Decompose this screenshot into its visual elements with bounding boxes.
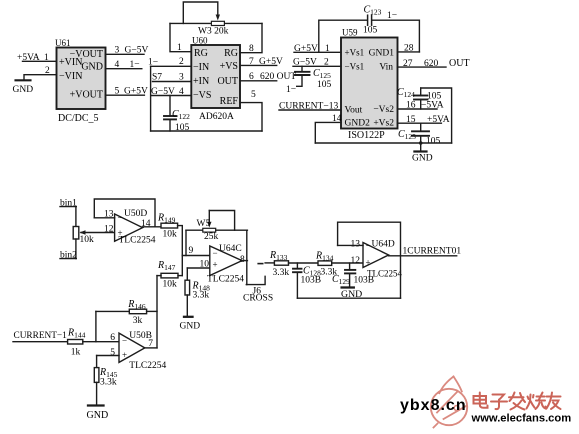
resistor R148 3.3k bbox=[185, 268, 210, 317]
svg-text:GND2: GND2 bbox=[345, 119, 371, 129]
svg-text:13: 13 bbox=[351, 240, 361, 250]
bottom reference wire under U60 bbox=[151, 130, 262, 132]
svg-text:5: 5 bbox=[251, 90, 256, 100]
svg-text:+5VA: +5VA bbox=[427, 115, 450, 125]
svg-text:TLC2254: TLC2254 bbox=[119, 236, 156, 246]
node bin2 bbox=[60, 251, 77, 261]
svg-text:2: 2 bbox=[324, 58, 329, 68]
svg-text:1−: 1− bbox=[387, 11, 397, 21]
U61 pin 4 wire, net 1- bbox=[106, 60, 142, 70]
svg-text:620: 620 bbox=[424, 59, 439, 69]
svg-text:12: 12 bbox=[351, 256, 361, 266]
svg-text:R146: R146 bbox=[127, 299, 146, 311]
U64C output wire bbox=[242, 260, 247, 262]
svg-text:16: 16 bbox=[406, 101, 416, 111]
svg-text:R149: R149 bbox=[157, 213, 176, 225]
svg-text:10k: 10k bbox=[163, 230, 178, 240]
capacitor C128 103B bbox=[293, 263, 321, 298]
svg-text:−Vs1: −Vs1 bbox=[345, 62, 365, 72]
svg-text:3: 3 bbox=[115, 46, 120, 56]
capacitor C125 105 on +Vs2 bbox=[398, 123, 441, 146]
svg-text:C123: C123 bbox=[364, 5, 382, 17]
svg-text:105: 105 bbox=[363, 26, 378, 36]
U50B output wire up to R146/R147 bbox=[145, 347, 157, 349]
svg-text:3.3k: 3.3k bbox=[100, 378, 117, 388]
op-amp U64D TLC2254 bbox=[351, 240, 403, 279]
bottom rail wire under U59 bbox=[315, 141, 451, 145]
watermark glyph fa bbox=[509, 393, 525, 410]
svg-text:W3 20k: W3 20k bbox=[198, 27, 229, 37]
resistor R149 10k bbox=[157, 213, 178, 240]
node bin1 bbox=[60, 199, 77, 209]
ground under U61 pin2 bbox=[13, 80, 34, 95]
svg-text:15: 15 bbox=[406, 115, 416, 125]
ground under R148 bbox=[180, 317, 201, 332]
svg-text:1k: 1k bbox=[71, 348, 81, 358]
pot wiper arrow to U50D pin 12 bbox=[80, 230, 115, 234]
svg-text:R133: R133 bbox=[269, 250, 288, 262]
svg-text:+5VA: +5VA bbox=[17, 53, 40, 63]
svg-text:U50D: U50D bbox=[124, 209, 147, 219]
svg-text:−5VA: −5VA bbox=[421, 101, 444, 111]
svg-text:6: 6 bbox=[110, 333, 115, 343]
svg-text:−: − bbox=[366, 241, 371, 251]
U59 pin 1 wire, net G+5V bbox=[294, 44, 341, 54]
dcdc U61 body bbox=[55, 38, 106, 124]
svg-text:10k: 10k bbox=[163, 280, 178, 290]
svg-text:−: − bbox=[213, 248, 218, 258]
svg-text:U64C: U64C bbox=[219, 244, 242, 254]
ground under U59 bbox=[412, 143, 433, 164]
U60 pin 5 REF wire bbox=[240, 90, 262, 131]
U59 pin 27 Vin wire, net 620 OUT bbox=[398, 58, 470, 69]
wire R144 to U50B pin 6 bbox=[83, 341, 119, 343]
U60 pin 6 wire, net 620 OUT bbox=[240, 72, 296, 82]
watermark glyph dian bbox=[474, 393, 488, 408]
bottom wire C128 to feedback bbox=[297, 297, 400, 299]
svg-text:C129: C129 bbox=[332, 274, 350, 286]
svg-text:GND1: GND1 bbox=[369, 49, 395, 59]
op-amp U50B TLC2254 bbox=[110, 331, 166, 371]
capacitor C125 105 on -Vs1, net 1- bbox=[286, 66, 332, 95]
wire R147 down to U50B output bbox=[156, 276, 158, 348]
svg-text:5: 5 bbox=[110, 348, 115, 358]
wire pot to bin2 bbox=[75, 239, 77, 259]
svg-text:GND: GND bbox=[81, 62, 103, 73]
svg-text:12: 12 bbox=[104, 225, 114, 235]
svg-text:GND: GND bbox=[412, 154, 433, 164]
svg-text:10k: 10k bbox=[80, 235, 95, 245]
U60 pin 1 wire bbox=[170, 23, 191, 53]
wire R149 to summing node bbox=[178, 226, 183, 256]
svg-text:+IN: +IN bbox=[193, 76, 209, 87]
svg-text:U61: U61 bbox=[55, 38, 71, 48]
svg-text:GND: GND bbox=[13, 85, 34, 95]
U60 pin 4 wire, net G-5V bbox=[151, 87, 191, 97]
U59 pin 13 Vout wire, net CURRENT-1 bbox=[279, 102, 341, 112]
svg-text:−VIN: −VIN bbox=[59, 71, 82, 82]
svg-text:C122: C122 bbox=[172, 109, 190, 121]
U60 pin 3 wire, net S7 bbox=[152, 73, 191, 83]
svg-text:3.3k: 3.3k bbox=[273, 268, 290, 278]
wire bin1 to pot bbox=[75, 207, 77, 227]
svg-text:1−: 1− bbox=[148, 58, 158, 68]
U50D pin 13 wire bbox=[94, 217, 114, 219]
potentiometer 10k vertical bbox=[73, 227, 94, 246]
svg-text:103B: 103B bbox=[301, 276, 322, 286]
U61 pin 1 wire, net +5VA bbox=[17, 53, 57, 63]
svg-text:G−5V: G−5V bbox=[293, 58, 317, 68]
svg-text:G+5V: G+5V bbox=[294, 44, 318, 54]
svg-text:TLC2254: TLC2254 bbox=[207, 275, 244, 285]
capacitor C122 105 bbox=[164, 96, 190, 134]
svg-text:1CURRENT01: 1CURRENT01 bbox=[403, 247, 462, 257]
ground under R145 bbox=[87, 406, 109, 422]
svg-text:7: 7 bbox=[249, 57, 254, 67]
svg-text:OUT: OUT bbox=[449, 58, 470, 69]
svg-text:U59: U59 bbox=[342, 28, 358, 38]
svg-text:−VS: −VS bbox=[193, 90, 211, 101]
U64D output wire, net 1CURRENT01 bbox=[389, 247, 462, 257]
resistor R133 3.3k bbox=[265, 250, 289, 278]
svg-text:1: 1 bbox=[177, 43, 182, 53]
svg-text:−IN: −IN bbox=[193, 62, 209, 73]
svg-text:+: + bbox=[366, 258, 371, 268]
U61 pin 3 wire, net G-5V bbox=[106, 46, 149, 56]
svg-text:+Vs1: +Vs1 bbox=[345, 48, 365, 58]
svg-text:OUT: OUT bbox=[217, 76, 238, 87]
jumper J6 CROSS bbox=[243, 264, 273, 304]
resistor R147 10k bbox=[157, 260, 182, 290]
svg-text:1: 1 bbox=[325, 44, 330, 54]
U50D output wire bbox=[143, 226, 161, 228]
U60 pin 7 wire, net G+5V bbox=[240, 57, 283, 67]
svg-text:−: − bbox=[122, 336, 127, 346]
svg-text:ISO122P: ISO122P bbox=[348, 130, 385, 141]
U50B pin 5 wire bbox=[97, 355, 119, 357]
U61 pin 5 wire, net G+5V bbox=[106, 87, 148, 97]
svg-text:C125: C125 bbox=[313, 68, 331, 80]
potentiometer W3 20k bbox=[170, 2, 262, 37]
ground under C129 bbox=[341, 288, 362, 301]
wire R133 to R134 bbox=[289, 262, 319, 264]
svg-text:CROSS: CROSS bbox=[243, 294, 273, 304]
resistor R146 3k bbox=[96, 299, 157, 326]
U50D feedback loop wire bbox=[94, 199, 155, 227]
svg-text:ybx8.cn: ybx8.cn bbox=[400, 397, 467, 414]
svg-text:DC/DC_5: DC/DC_5 bbox=[58, 113, 99, 124]
svg-text:5: 5 bbox=[115, 87, 120, 97]
U60 pin 2 wire, net 1- bbox=[148, 57, 191, 68]
svg-text:3.3k: 3.3k bbox=[193, 291, 210, 301]
wire summing node down to R147 bbox=[181, 256, 183, 276]
svg-text:CURRENT−13: CURRENT−13 bbox=[279, 102, 338, 112]
svg-text:AD620A: AD620A bbox=[199, 112, 234, 122]
U64D feedback loop wire bbox=[338, 222, 401, 298]
wire W5 left leg to pin 9 node bbox=[185, 230, 187, 255]
svg-text:C124: C124 bbox=[397, 87, 415, 99]
svg-text:105: 105 bbox=[317, 80, 332, 90]
svg-text:RG: RG bbox=[224, 48, 238, 59]
svg-text:S7: S7 bbox=[152, 73, 162, 83]
resistor R134 3.3k bbox=[315, 251, 337, 278]
net 1- left vertical wire bbox=[150, 66, 152, 131]
capacitor C129 103B bbox=[332, 263, 374, 288]
svg-text:GND: GND bbox=[87, 410, 109, 421]
svg-text:Vin: Vin bbox=[379, 63, 393, 73]
svg-text:G−5V: G−5V bbox=[125, 46, 149, 56]
svg-text:8: 8 bbox=[249, 44, 254, 54]
svg-text:TLC2254: TLC2254 bbox=[367, 269, 402, 279]
svg-text:1−: 1− bbox=[130, 60, 140, 70]
svg-text:4: 4 bbox=[179, 87, 184, 97]
svg-text:14: 14 bbox=[332, 114, 342, 124]
svg-text:www.elecfans.com: www.elecfans.com bbox=[471, 413, 572, 425]
svg-text:3k: 3k bbox=[133, 316, 143, 326]
watermark glyph zi bbox=[491, 395, 507, 410]
svg-text:27: 27 bbox=[403, 59, 413, 69]
svg-text:28: 28 bbox=[404, 44, 414, 54]
svg-text:105: 105 bbox=[426, 137, 441, 147]
capacitor C124 105 bbox=[397, 87, 442, 109]
svg-text:+Vs2: +Vs2 bbox=[373, 119, 394, 129]
U64D pin 13 wire bbox=[338, 244, 363, 246]
watermark glyph shao bbox=[527, 393, 546, 410]
svg-text:W5: W5 bbox=[197, 219, 211, 229]
svg-text:1: 1 bbox=[44, 53, 49, 63]
watermark text www.elecfans.com bbox=[471, 413, 572, 425]
svg-text:−VOUT: −VOUT bbox=[70, 49, 103, 60]
watermark glyph you bbox=[547, 393, 561, 410]
watermark text ybx8.cn bbox=[400, 397, 467, 414]
U64C pin 10 wire bbox=[187, 267, 210, 269]
svg-text:+: + bbox=[213, 260, 218, 270]
svg-text:9: 9 bbox=[189, 246, 194, 256]
svg-text:2: 2 bbox=[45, 66, 50, 76]
svg-text:R147: R147 bbox=[157, 260, 176, 272]
U59 pin 15 +Vs2 wire, net +5VA bbox=[398, 115, 450, 125]
U64C pin 9 wire bbox=[182, 246, 210, 256]
potentiometer W5 25k bbox=[186, 211, 247, 243]
svg-text:+VS: +VS bbox=[220, 61, 238, 72]
svg-text:G+5V: G+5V bbox=[259, 57, 283, 67]
net CURRENT-1 input wire bbox=[13, 331, 68, 342]
svg-text:4: 4 bbox=[115, 60, 120, 70]
svg-text:+VOUT: +VOUT bbox=[70, 90, 103, 101]
svg-text:G+5V: G+5V bbox=[124, 87, 148, 97]
svg-text:620 OUT: 620 OUT bbox=[260, 72, 296, 82]
svg-text:R134: R134 bbox=[315, 251, 334, 263]
U60 pin 8 wire bbox=[240, 23, 262, 54]
svg-text:2: 2 bbox=[179, 57, 184, 67]
svg-text:REF: REF bbox=[220, 96, 239, 107]
resistor R145 3.3k bbox=[94, 356, 117, 406]
svg-text:U60: U60 bbox=[192, 36, 208, 46]
U61 pin 2 wire bbox=[24, 66, 57, 80]
svg-text:6: 6 bbox=[249, 72, 254, 82]
resistor R144 1k bbox=[67, 328, 86, 358]
capacitor C123 105, net 1- bbox=[319, 5, 420, 53]
svg-text:1−: 1− bbox=[286, 85, 296, 95]
svg-text:GND: GND bbox=[180, 322, 201, 332]
svg-text:105: 105 bbox=[427, 92, 442, 102]
wire W5 right leg down through output node to J6 bbox=[246, 230, 248, 284]
U59 pin 2 wire, net G-5V bbox=[293, 58, 341, 68]
svg-text:Vout: Vout bbox=[345, 106, 363, 116]
op-amp U64C TLC2254 bbox=[200, 244, 246, 285]
iso amp U59 body bbox=[341, 28, 398, 142]
svg-text:G−5V: G−5V bbox=[151, 87, 175, 97]
U59 pin 28 GND1 wire bbox=[398, 44, 420, 54]
svg-text:TLC2254: TLC2254 bbox=[129, 361, 166, 371]
wire R134 to U64D pin 12 bbox=[332, 262, 363, 264]
wire feedback node up to R146 bbox=[95, 311, 97, 341]
svg-text:CURRENT−1: CURRENT−1 bbox=[14, 331, 68, 341]
opamp U60 body bbox=[191, 36, 240, 123]
svg-text:RG: RG bbox=[194, 48, 208, 59]
op-amp U50D TLC2254 bbox=[104, 209, 156, 246]
svg-text:3: 3 bbox=[179, 73, 184, 83]
svg-text:−: − bbox=[118, 213, 123, 223]
svg-text:25k: 25k bbox=[204, 232, 219, 242]
U59 pin 14 GND2 wire bbox=[315, 114, 341, 143]
svg-text:R144: R144 bbox=[67, 328, 86, 340]
svg-text:−Vs2: −Vs2 bbox=[373, 105, 394, 115]
U59 pin 16 -Vs2 wire, net -5VA bbox=[398, 101, 444, 111]
watermark logo circle bbox=[431, 377, 467, 428]
svg-text:+: + bbox=[122, 350, 127, 360]
svg-text:U64D: U64D bbox=[372, 240, 395, 250]
right rail wire of U59 decoupling bbox=[421, 88, 452, 143]
